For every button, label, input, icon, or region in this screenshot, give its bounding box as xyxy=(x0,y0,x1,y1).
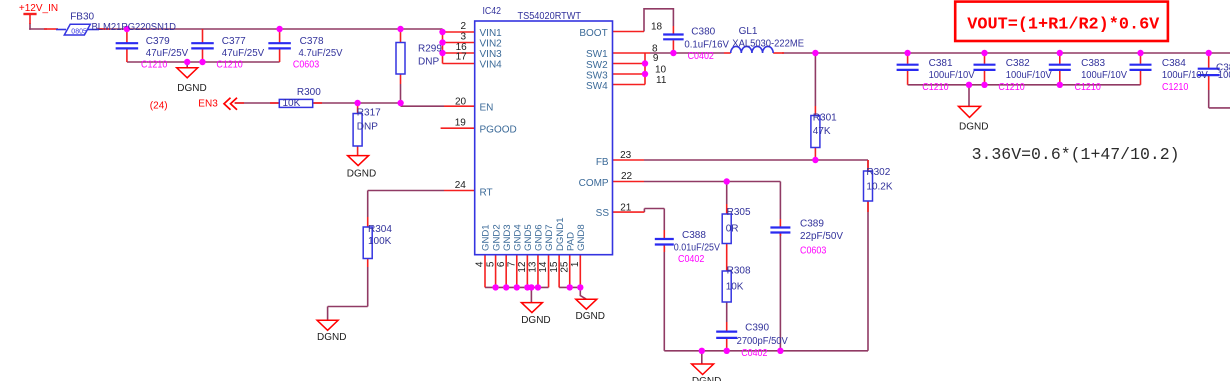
svg-text:24: 24 xyxy=(455,180,467,191)
svg-text:C377: C377 xyxy=(222,36,246,47)
svg-text:GND2: GND2 xyxy=(491,224,502,251)
svg-text:C0603: C0603 xyxy=(293,60,320,71)
svg-text:C0402: C0402 xyxy=(688,51,715,62)
svg-text:11: 11 xyxy=(656,75,667,86)
svg-text:10.2K: 10.2K xyxy=(866,182,892,193)
svg-text:SS: SS xyxy=(596,208,610,219)
svg-text:IC42: IC42 xyxy=(483,6,502,17)
svg-text:C0402: C0402 xyxy=(678,254,705,265)
svg-text:3.36V=0.6*(1+47/10.2): 3.36V=0.6*(1+47/10.2) xyxy=(972,146,1180,164)
svg-text:GND4: GND4 xyxy=(513,224,524,251)
svg-text:GL1: GL1 xyxy=(739,26,758,37)
svg-text:23: 23 xyxy=(620,150,632,161)
svg-text:0.01uF/25V: 0.01uF/25V xyxy=(674,243,720,254)
svg-text:GND1: GND1 xyxy=(481,224,492,251)
svg-text:C0603: C0603 xyxy=(800,245,827,256)
svg-text:C381: C381 xyxy=(929,58,953,69)
svg-text:DGND: DGND xyxy=(317,332,346,343)
svg-text:SW2: SW2 xyxy=(586,60,608,71)
svg-text:C1210: C1210 xyxy=(1162,82,1189,93)
svg-text:C1210: C1210 xyxy=(998,82,1025,93)
svg-text:22pF/50V: 22pF/50V xyxy=(800,231,843,242)
svg-text:C1210: C1210 xyxy=(922,82,949,93)
svg-text:DNP: DNP xyxy=(357,122,378,133)
svg-text:10K: 10K xyxy=(283,98,301,109)
svg-text:DGND: DGND xyxy=(177,83,206,94)
svg-text:FB: FB xyxy=(596,157,609,168)
svg-text:C390: C390 xyxy=(745,322,769,333)
svg-text:PAD: PAD xyxy=(565,232,576,251)
svg-text:100uF/10V: 100uF/10V xyxy=(1006,70,1052,81)
svg-text:10K: 10K xyxy=(726,282,744,293)
svg-text:R304: R304 xyxy=(368,224,392,235)
svg-text:17: 17 xyxy=(456,52,468,63)
svg-text:15: 15 xyxy=(549,261,560,273)
svg-text:25: 25 xyxy=(559,261,570,273)
svg-text:DGND: DGND xyxy=(576,311,605,322)
svg-text:47K: 47K xyxy=(813,126,831,137)
svg-text:100uF/10V: 100uF/10V xyxy=(1081,70,1127,81)
svg-text:+12V_IN: +12V_IN xyxy=(19,3,58,14)
svg-text:GND5: GND5 xyxy=(523,224,534,251)
svg-text:R308: R308 xyxy=(727,266,751,277)
svg-text:GND3: GND3 xyxy=(502,224,513,251)
svg-text:GND6: GND6 xyxy=(534,224,545,251)
svg-text:47uF/25V: 47uF/25V xyxy=(222,48,265,59)
svg-text:R300: R300 xyxy=(297,87,321,98)
svg-text:VIN2: VIN2 xyxy=(480,39,503,50)
svg-text:RT: RT xyxy=(480,187,493,198)
svg-text:XAL5030-222ME: XAL5030-222ME xyxy=(732,39,804,50)
svg-text:DGND: DGND xyxy=(692,376,721,381)
svg-text:100K: 100K xyxy=(368,236,392,247)
svg-text:C380: C380 xyxy=(691,27,715,38)
svg-text:VIN4: VIN4 xyxy=(480,60,503,71)
svg-text:4: 4 xyxy=(475,261,486,267)
svg-text:6: 6 xyxy=(496,261,507,267)
svg-text:3: 3 xyxy=(461,31,467,42)
svg-text:BLM21PG220SN1D: BLM21PG220SN1D xyxy=(92,22,177,33)
svg-text:19: 19 xyxy=(455,117,467,128)
svg-text:VIN1: VIN1 xyxy=(480,28,503,39)
svg-text:PGOOD: PGOOD xyxy=(480,125,517,136)
svg-text:TS54020RTWT: TS54020RTWT xyxy=(518,11,582,22)
svg-text:C389: C389 xyxy=(800,219,824,230)
svg-text:R305: R305 xyxy=(727,207,751,218)
svg-text:100uF/10V: 100uF/10V xyxy=(1162,70,1208,81)
svg-text:C0402: C0402 xyxy=(741,348,768,359)
svg-text:9: 9 xyxy=(653,53,659,64)
svg-text:C1210: C1210 xyxy=(216,60,243,71)
svg-text:SW1: SW1 xyxy=(586,49,608,60)
svg-text:100uF/10V: 100uF/10V xyxy=(1218,70,1230,81)
svg-text:2: 2 xyxy=(461,21,467,32)
svg-text:DGND1: DGND1 xyxy=(555,217,566,251)
svg-text:10: 10 xyxy=(655,64,667,75)
svg-text:C1210: C1210 xyxy=(141,60,168,71)
svg-text:47uF/25V: 47uF/25V xyxy=(146,48,189,59)
svg-text:7: 7 xyxy=(507,261,518,267)
svg-text:5: 5 xyxy=(485,261,496,267)
svg-text:R299: R299 xyxy=(418,43,442,54)
svg-text:1: 1 xyxy=(570,261,581,267)
svg-text:13: 13 xyxy=(528,261,539,273)
svg-text:R317: R317 xyxy=(357,107,381,118)
svg-text:SW4: SW4 xyxy=(586,81,608,92)
svg-text:VOUT=(1+R1/R2)*0.6V: VOUT=(1+R1/R2)*0.6V xyxy=(967,15,1160,34)
svg-text:DNP: DNP xyxy=(418,56,439,67)
svg-text:C382: C382 xyxy=(1006,58,1030,69)
svg-text:VIN3: VIN3 xyxy=(480,49,503,60)
svg-text:EN3: EN3 xyxy=(198,98,218,109)
svg-text:22: 22 xyxy=(621,171,633,182)
svg-text:20: 20 xyxy=(455,97,467,108)
svg-text:100uF/10V: 100uF/10V xyxy=(929,70,975,81)
svg-text:C378: C378 xyxy=(300,36,324,47)
svg-text:EN: EN xyxy=(480,103,494,114)
svg-text:(24): (24) xyxy=(150,100,168,111)
svg-text:GND7: GND7 xyxy=(544,224,555,251)
svg-text:12: 12 xyxy=(517,261,528,273)
svg-text:18: 18 xyxy=(651,21,663,32)
svg-text:R302: R302 xyxy=(866,167,890,178)
svg-text:R301: R301 xyxy=(813,113,837,124)
svg-text:C384: C384 xyxy=(1162,58,1186,69)
svg-text:DGND: DGND xyxy=(959,121,988,132)
svg-text:14: 14 xyxy=(538,261,549,273)
svg-text:C383: C383 xyxy=(1081,58,1105,69)
svg-text:0805: 0805 xyxy=(71,29,87,36)
svg-text:COMP: COMP xyxy=(579,178,609,189)
svg-text:0R: 0R xyxy=(726,223,739,234)
svg-text:DGND: DGND xyxy=(347,168,376,179)
svg-text:0.1uF/16V: 0.1uF/16V xyxy=(684,39,729,50)
svg-text:SW3: SW3 xyxy=(586,71,608,82)
svg-text:2700pF/50V: 2700pF/50V xyxy=(737,336,788,347)
svg-text:DGND: DGND xyxy=(521,315,550,326)
svg-text:C1210: C1210 xyxy=(1075,82,1102,93)
svg-text:C388: C388 xyxy=(682,230,706,241)
svg-text:GND8: GND8 xyxy=(576,224,587,251)
svg-text:4.7uF/25V: 4.7uF/25V xyxy=(299,48,343,59)
svg-text:21: 21 xyxy=(620,202,632,213)
svg-text:BOOT: BOOT xyxy=(579,28,607,39)
svg-text:C379: C379 xyxy=(146,36,170,47)
